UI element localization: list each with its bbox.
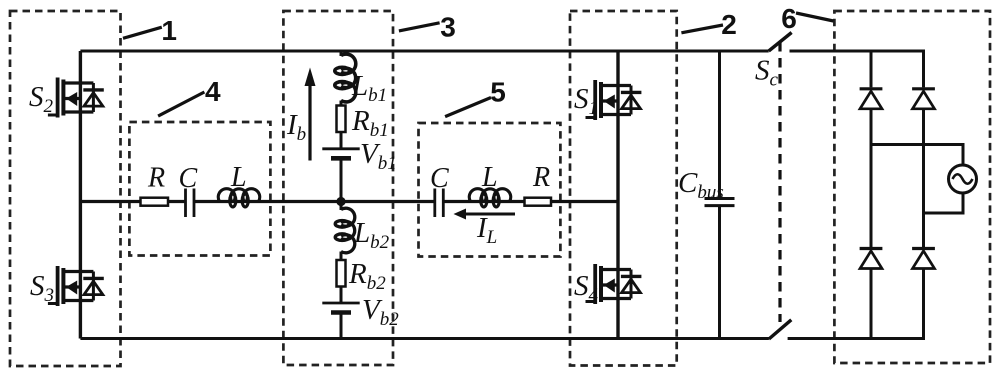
wire: middle row centre (C to C): [194, 200, 435, 203]
switch Sc linkage dashed line: [778, 42, 781, 322]
inductor L (box 4): [218, 189, 260, 207]
pointer line 4: [158, 92, 204, 116]
dashed box 4: [129, 122, 270, 256]
wire: bridge left leg: [870, 51, 873, 339]
inductor L (box 5): [469, 189, 511, 207]
wire: Vb2 to bottom rail: [340, 313, 343, 339]
wire: Lb1 to Rb1: [340, 101, 343, 106]
svg-text:5: 5: [490, 77, 506, 108]
wire: left leg vertical (S2/S3 branch): [79, 51, 82, 339]
svg-text:S2: S2: [29, 81, 54, 117]
pointer line 1: [123, 27, 162, 38]
inductor Lb1: [335, 54, 356, 102]
svg-text:4: 4: [205, 76, 221, 107]
wire: Vb1 to node: [340, 158, 343, 201]
svg-text:1: 1: [161, 15, 177, 46]
arrow IL: [464, 213, 515, 216]
MOSFET S2: [48, 78, 104, 118]
wire: top rail right segment: [790, 50, 926, 53]
capacitor Cbus plates: [705, 199, 735, 206]
capacitor Cbus lead bottom: [718, 206, 721, 339]
battery Vb1: [322, 149, 359, 159]
svg-text:Sc: Sc: [755, 55, 779, 91]
diode D4 (bottom right): [912, 249, 935, 269]
MOSFET S3: [48, 266, 104, 306]
wire: bottom rail left segment: [80, 337, 769, 340]
dashed box 1: [10, 11, 121, 366]
wire: AC upper connection: [871, 145, 963, 166]
wire: middle row left (to C plate): [80, 200, 184, 203]
resistor Rb1: [337, 106, 346, 133]
svg-text:2: 2: [721, 9, 737, 40]
dashed box 2: [570, 11, 677, 366]
diode D3 (bottom left): [860, 249, 883, 269]
dashed box 3: [283, 11, 393, 365]
svg-text:Rb1: Rb1: [351, 105, 389, 141]
wire: bridge right leg: [922, 51, 925, 339]
AC source: [949, 165, 977, 193]
wire: AC lower connection: [924, 193, 964, 213]
svg-text:Rb2: Rb2: [348, 258, 386, 294]
svg-text:L: L: [481, 162, 498, 193]
arrow Ib: [308, 84, 311, 161]
inductor Lb2: [335, 208, 355, 253]
resistor R (box 5): [525, 198, 552, 206]
pointer line 5: [445, 98, 491, 117]
capacitor C (box 4): [186, 189, 195, 218]
diode D2 (top right): [912, 89, 935, 109]
MOSFET S4: [586, 264, 642, 304]
wire: right leg vertical (S1/S4 branch): [616, 51, 619, 339]
svg-text:Cbus: Cbus: [678, 167, 724, 203]
capacitor Cbus lead top: [718, 51, 721, 199]
svg-text:Lb1: Lb1: [351, 70, 387, 106]
switch Sc bottom blade: [769, 320, 791, 339]
diode D1 (top left): [860, 89, 883, 109]
svg-text:IL: IL: [476, 212, 497, 248]
svg-text:Vb2: Vb2: [362, 294, 399, 330]
svg-text:L: L: [230, 162, 247, 193]
resistor Rb2: [337, 260, 346, 287]
wire: middle row right (C to S1/S4): [443, 200, 618, 203]
svg-text:3: 3: [440, 11, 456, 42]
dashed box 5: [419, 123, 561, 257]
wire: bottom rail right segment: [788, 337, 925, 340]
battery branch: lead from top rail: [340, 51, 343, 56]
pointer line 2: [681, 25, 723, 33]
node junction dot: [336, 197, 345, 206]
wire: node to Lb2: [340, 202, 343, 211]
svg-text:Lb2: Lb2: [353, 217, 390, 253]
svg-text:C: C: [179, 163, 198, 194]
svg-text:Ib: Ib: [286, 109, 306, 145]
svg-text:R: R: [532, 162, 550, 193]
wire: Rb1 to Vb1: [340, 132, 343, 149]
wire: top rail left segment: [80, 50, 768, 53]
svg-text:C: C: [430, 163, 449, 194]
switch Sc top blade: [769, 33, 792, 52]
dashed box 6: [834, 11, 990, 363]
battery Vb2: [322, 303, 359, 313]
pointer line 3: [399, 23, 440, 31]
svg-text:Vb1: Vb1: [360, 138, 397, 174]
resistor R (box 4): [141, 198, 169, 206]
svg-text:S3: S3: [30, 270, 54, 306]
pointer line 6: [796, 13, 834, 21]
wire: Lb2 to Rb2: [340, 252, 343, 261]
MOSFET S1: [586, 80, 642, 120]
wire: Rb2 to Vb2: [340, 287, 343, 304]
svg-text:R: R: [147, 163, 165, 194]
svg-text:6: 6: [781, 3, 797, 34]
capacitor C (box 5): [435, 189, 444, 218]
